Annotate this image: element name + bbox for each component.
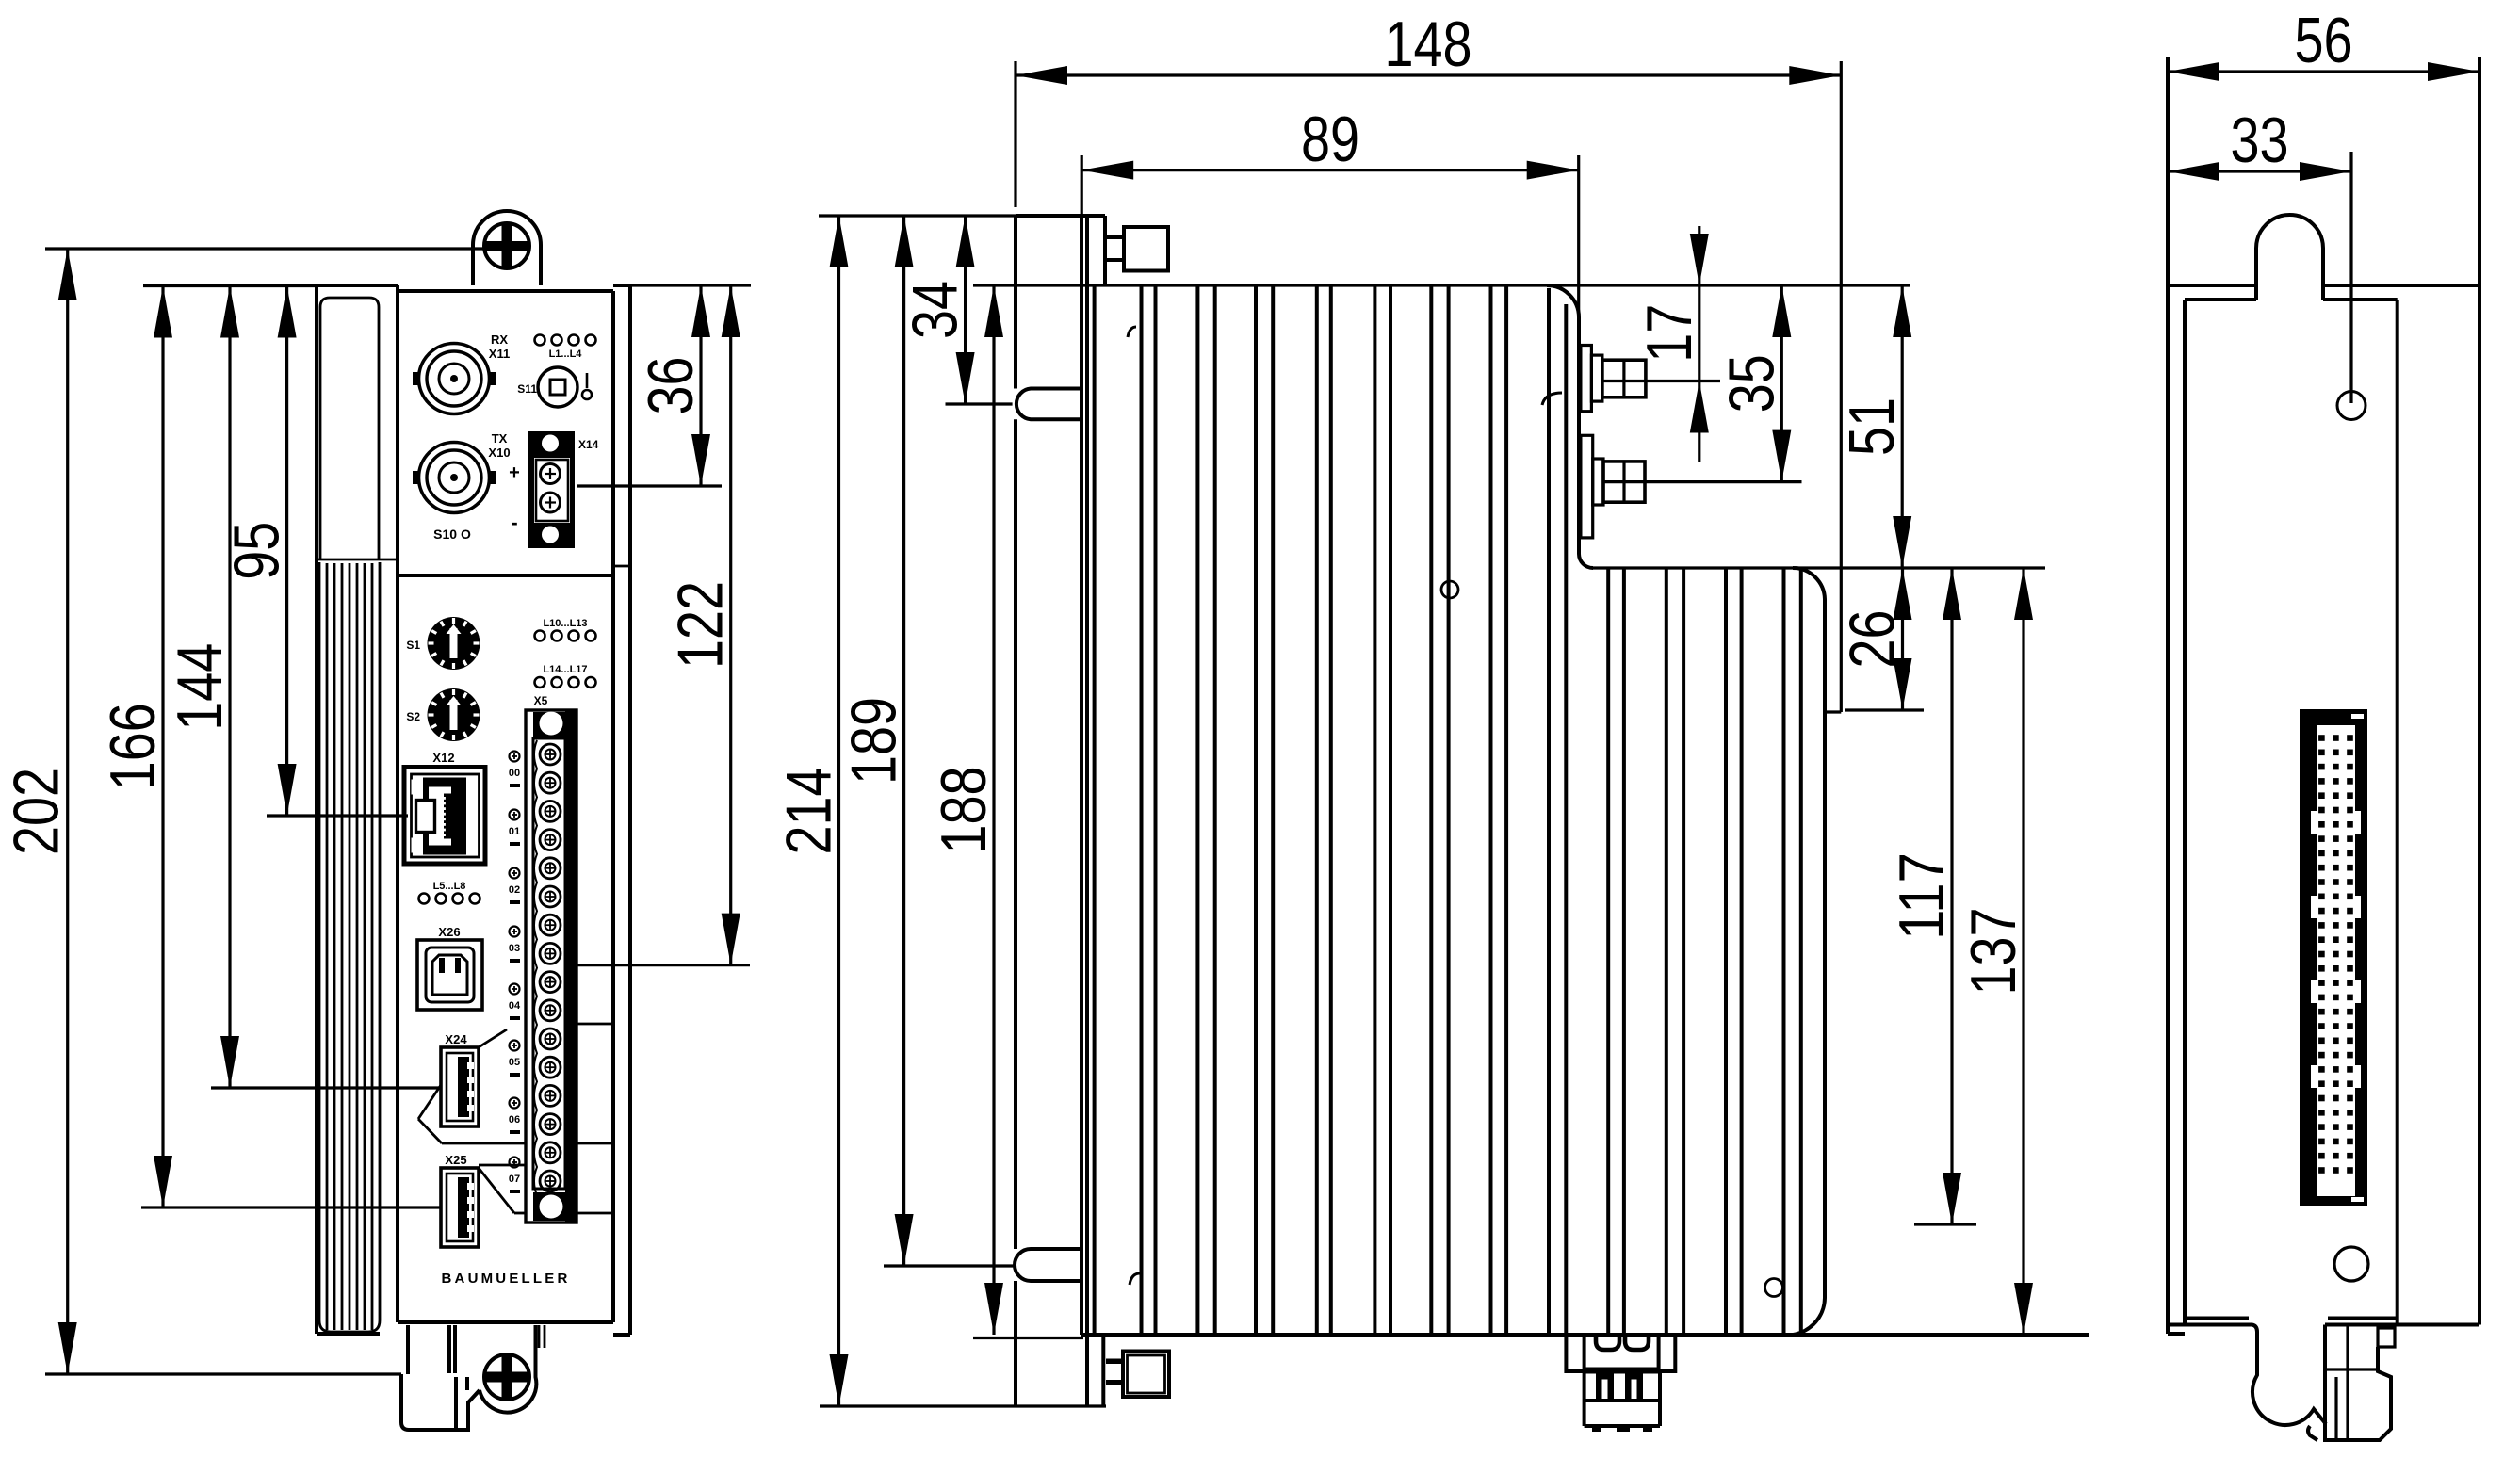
svg-text:X5: X5 (534, 694, 548, 707)
rotary switch S1 (428, 617, 480, 670)
svg-text:-: - (511, 510, 517, 534)
leader X14 (577, 484, 722, 487)
X5 signal labels 00-07 (509, 752, 521, 1194)
svg-text:06: 06 (509, 1114, 520, 1126)
label L14..L17 (543, 664, 587, 675)
middle view foot bottom edge (820, 1404, 1106, 1407)
svg-text:X14: X14 (578, 438, 599, 451)
svg-text:36: 36 (635, 357, 707, 415)
dimension 35 (1715, 285, 1791, 482)
svg-text:166: 166 (97, 703, 169, 790)
dimension 34 (900, 216, 975, 404)
LEDs L5..L8 (419, 894, 480, 904)
svg-text:144: 144 (164, 643, 236, 731)
svg-text:17: 17 (1634, 304, 1705, 363)
front view strip slot panel (320, 298, 379, 559)
leader 33 (2349, 152, 2352, 403)
rotary switch S2 (428, 688, 480, 741)
svg-text:L1...L4: L1...L4 (549, 348, 583, 360)
ext 89 right (1577, 155, 1580, 317)
middle view top slot (1016, 389, 1083, 420)
svg-text:01: 01 (509, 826, 520, 837)
svg-text:BAUMUELLER: BAUMUELLER (442, 1271, 571, 1287)
svg-text:S11: S11 (517, 382, 537, 396)
heatsink top outline (1081, 285, 1910, 568)
label X12 (432, 751, 454, 765)
svg-text:02: 02 (509, 884, 520, 896)
front view strip divider (317, 559, 398, 561)
right view bottom hole (2334, 1247, 2368, 1281)
label L1..L4 (549, 348, 583, 360)
ext 148 right (1840, 61, 1843, 712)
label L10..L13 (543, 618, 587, 629)
svg-text:202: 202 (1, 768, 73, 855)
svg-text:+: + (509, 462, 520, 483)
heatsink fins (1095, 285, 1801, 1335)
ext line bottom 202 (45, 1372, 401, 1375)
dimension 95 (221, 286, 297, 817)
svg-text:L14...L17: L14...L17 (543, 664, 587, 675)
BNC connector RX X11 (413, 344, 496, 414)
middle view bottom foot (1087, 1335, 1103, 1406)
dimension 56 (2168, 5, 2479, 81)
middle view terminal screw lower (1581, 435, 1645, 538)
label RX X11 (489, 332, 510, 361)
front view top screw (484, 223, 529, 268)
leader screw lower (1603, 480, 1802, 483)
dimension 166 (97, 286, 172, 1208)
middle view mounting plate (1016, 216, 1105, 1406)
leader to X25 (141, 1206, 441, 1208)
label X26 (438, 925, 460, 939)
connector X5 body (526, 710, 577, 1223)
button S11 (517, 367, 577, 407)
label L5..L8 (433, 881, 466, 892)
heatsink bottom edge (1081, 1333, 2089, 1336)
right view DIN clip (2325, 1325, 2395, 1441)
svg-text:56: 56 (2295, 5, 2353, 76)
ext line top right (613, 283, 751, 286)
svg-text:L5...L8: L5...L8 (433, 881, 466, 892)
label minus (511, 510, 517, 534)
middle view bottom terminal (1566, 1335, 1675, 1432)
svg-text:X12: X12 (432, 751, 454, 765)
label X5 (534, 694, 548, 707)
USB-A connector X25 (441, 1168, 479, 1247)
middle view terminal screw upper (1581, 346, 1646, 412)
svg-text:TX: TX (492, 431, 508, 445)
RJ45 connector X12 (404, 768, 485, 865)
svg-text:X26: X26 (438, 925, 460, 939)
svg-text:34: 34 (900, 281, 971, 339)
svg-text:S1: S1 (406, 639, 420, 652)
svg-text:X11: X11 (489, 347, 510, 361)
svg-text:04: 04 (509, 1000, 521, 1012)
svg-text:137: 137 (1958, 908, 2029, 996)
ext line middle top (819, 214, 1016, 217)
front panel outline (398, 291, 613, 1322)
svg-text:26: 26 (1837, 610, 1909, 669)
ext 148 left (1014, 61, 1016, 207)
hole mark upper (1441, 581, 1458, 598)
label S1 (406, 639, 420, 652)
svg-text:89: 89 (1301, 104, 1359, 175)
DIN 41612 connector (2300, 709, 2367, 1206)
dimension 214 (773, 216, 849, 1406)
brand wordmark (442, 1271, 571, 1287)
dimension 117 (1886, 568, 1961, 1224)
ext 117 bottom (1914, 1223, 1976, 1225)
BNC connector TX X10 (413, 443, 496, 513)
surface mark 1 (1128, 327, 1136, 337)
label TX X10 (488, 431, 510, 460)
ext 89 left (1081, 155, 1083, 216)
right view outer box (2168, 57, 2479, 1334)
front panel divider (398, 574, 613, 577)
svg-text:S10 O: S10 O (433, 526, 471, 542)
middle view body left edge (1081, 216, 1087, 1335)
LEDs L10..L13 (535, 631, 596, 641)
terminal block X14 (528, 431, 575, 548)
dimension 17 (1634, 226, 1709, 462)
X5 link lines right (577, 1024, 613, 1213)
front view left strip outline (317, 285, 398, 1334)
ext 189 bottom (884, 1264, 1014, 1267)
svg-text:214: 214 (773, 768, 845, 855)
dimension 89 (1081, 104, 1579, 180)
front view top mounting tab (473, 211, 541, 285)
LEDs L1..L4 (535, 335, 596, 346)
label X25 (445, 1153, 466, 1167)
svg-text:51: 51 (1836, 397, 1908, 456)
ext line top 202 (45, 247, 484, 250)
hole mark lower (1765, 1279, 1783, 1297)
svg-text:00: 00 (509, 768, 520, 779)
ext line 122 bottom (569, 964, 750, 966)
svg-text:X24: X24 (445, 1032, 467, 1046)
svg-text:05: 05 (509, 1057, 520, 1068)
right view bottom notch (2252, 1325, 2326, 1441)
svg-text:X25: X25 (445, 1153, 466, 1167)
svg-text:35: 35 (1715, 354, 1787, 413)
svg-text:122: 122 (665, 581, 737, 669)
label plus (509, 462, 520, 483)
label X14 (578, 438, 599, 451)
ext line top 166-95 (143, 284, 317, 287)
connector X5 terminals (540, 744, 561, 1191)
svg-text:07: 07 (509, 1174, 520, 1185)
dimension 189 (838, 216, 914, 1266)
svg-text:X10: X10 (488, 445, 510, 460)
svg-text:95: 95 (221, 522, 293, 580)
front view right flange (613, 285, 630, 1335)
ext 148 right foot (1825, 710, 1841, 713)
ext 34 bottom (946, 402, 1013, 405)
dimension 36 (635, 285, 710, 486)
ext 26 bottom (1845, 708, 1924, 711)
svg-text:117: 117 (1886, 852, 1958, 940)
svg-text:RX: RX (491, 332, 508, 347)
svg-text:148: 148 (1385, 8, 1472, 80)
leader to X24 (211, 1086, 441, 1089)
front view bottom tab (401, 1325, 545, 1430)
surface mark 3 (1130, 1273, 1140, 1285)
dimension 26 (1837, 568, 1912, 710)
LEDs L14..L17 (535, 677, 596, 688)
dimension 202 (1, 249, 77, 1374)
label S2 (406, 710, 420, 723)
svg-text:189: 189 (838, 697, 910, 785)
heatsink step outline (1593, 568, 2045, 1336)
svg-text:L10...L13: L10...L13 (543, 618, 587, 629)
right view top hole (2337, 392, 2366, 420)
USB-B connector X26 (417, 940, 482, 1010)
right view keyhole arch (2256, 215, 2323, 300)
ext 188 top (973, 283, 1081, 286)
dimension 144 (164, 286, 239, 1089)
front view strip fins (319, 562, 380, 1332)
dimension 33 (2168, 105, 2351, 181)
front view bottom screw (484, 1354, 529, 1400)
dimension 137 (1958, 568, 2033, 1335)
label X24 (445, 1032, 467, 1046)
label S10 (433, 526, 471, 542)
surface mark 2 (1542, 393, 1562, 405)
X24/X25 pointer lines (418, 1029, 526, 1213)
dimension 148 (1016, 8, 1841, 85)
middle view top screw (1105, 227, 1168, 271)
USB-A connector X24 (441, 1047, 479, 1126)
middle view bottom screw (1106, 1352, 1169, 1398)
leader screw upper (1602, 380, 1720, 382)
svg-text:S2: S2 (406, 710, 420, 723)
svg-text:188: 188 (928, 767, 1000, 854)
middle view bottom slot (1015, 1249, 1083, 1281)
svg-text:03: 03 (509, 943, 520, 954)
S11 indicator (582, 373, 592, 399)
dimension 122 (665, 285, 740, 965)
right view back plate (2185, 300, 2398, 1324)
ext 188 bottom (973, 1336, 1083, 1339)
leader to X12 (267, 814, 408, 817)
svg-text:33: 33 (2231, 105, 2289, 176)
dimension 188 (928, 285, 1003, 1335)
dimension 51 (1836, 285, 1911, 568)
